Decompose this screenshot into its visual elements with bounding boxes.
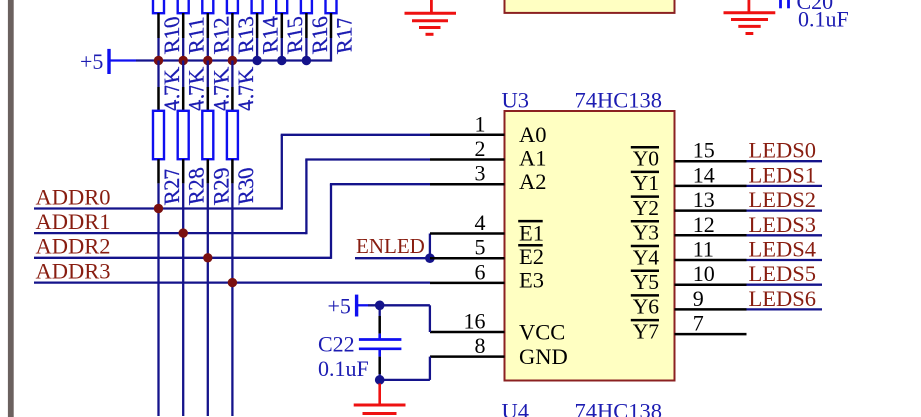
svg-text:10: 10 bbox=[693, 261, 715, 286]
svg-text:Y6: Y6 bbox=[633, 295, 660, 319]
svg-text:R10: R10 bbox=[159, 14, 184, 55]
svg-text:R30: R30 bbox=[233, 165, 258, 206]
pin 15 (Y0) bbox=[631, 138, 747, 171]
svg-text:Y7: Y7 bbox=[633, 319, 660, 343]
wire lead drop R16 bbox=[305, 38, 307, 61]
wire ADDR0 horizontal bbox=[34, 135, 430, 210]
resistor R28 4.7K bbox=[178, 61, 209, 207]
svg-text:LEDS3: LEDS3 bbox=[749, 212, 817, 237]
svg-text:ADDR2: ADDR2 bbox=[36, 234, 111, 259]
svg-text:Y5: Y5 bbox=[633, 270, 659, 294]
wire LEDS6 bbox=[747, 308, 823, 310]
svg-text:16: 16 bbox=[464, 309, 486, 334]
svg-text:R13: R13 bbox=[233, 14, 258, 55]
resistor R10 bbox=[153, 0, 184, 56]
svg-text:ADDR0: ADDR0 bbox=[36, 184, 111, 209]
power +5 (VCC) bbox=[328, 294, 369, 319]
svg-text:R15: R15 bbox=[282, 14, 307, 55]
svg-text:R12: R12 bbox=[208, 14, 233, 55]
wire LEDS4 bbox=[747, 259, 823, 261]
svg-text:A2: A2 bbox=[519, 169, 547, 194]
svg-text:A0: A0 bbox=[519, 122, 547, 147]
pin 3 (A2) bbox=[430, 161, 547, 194]
junction ADDR1/R28 bbox=[179, 228, 188, 237]
svg-text:R27: R27 bbox=[159, 165, 184, 206]
junction C22/GND bbox=[375, 375, 385, 385]
svg-text:74HC138: 74HC138 bbox=[575, 88, 663, 113]
wire lead drop R10 bbox=[157, 38, 159, 61]
resistor R12 bbox=[202, 0, 233, 56]
wire ENLED bbox=[355, 234, 430, 259]
resistor R11 bbox=[178, 0, 209, 56]
wire lead drop R11 bbox=[182, 38, 184, 61]
svg-text:Y4: Y4 bbox=[633, 245, 660, 269]
svg-text:2: 2 bbox=[475, 136, 486, 161]
wire R17 drop to rail bbox=[330, 38, 332, 62]
svg-text:A1: A1 bbox=[519, 146, 547, 171]
wire +5 rail bbox=[136, 59, 331, 61]
wire LEDS5 bbox=[747, 284, 823, 286]
wire lead drop R13 bbox=[231, 38, 233, 61]
pin 6 (E3) bbox=[430, 259, 544, 292]
svg-text:E2: E2 bbox=[519, 244, 544, 269]
svg-text:R29: R29 bbox=[208, 165, 233, 206]
pin 11 (Y4) bbox=[631, 237, 747, 270]
junction +5/R16 bbox=[302, 56, 311, 65]
junction +5/R13 bbox=[228, 56, 237, 65]
wire LEDS2 bbox=[747, 209, 823, 211]
wire ADDR2 vertical column bbox=[207, 183, 209, 416]
wire lead drop R15 bbox=[281, 38, 283, 61]
svg-text:LEDS5: LEDS5 bbox=[749, 261, 817, 286]
svg-text:13: 13 bbox=[693, 187, 715, 212]
pin 14 (Y1) bbox=[631, 162, 747, 195]
pin 10 (Y5) bbox=[631, 261, 747, 294]
wire GND net bbox=[380, 357, 430, 380]
svg-text:R17: R17 bbox=[332, 14, 357, 55]
svg-text:Y2: Y2 bbox=[633, 196, 659, 220]
junction +5/R10 bbox=[154, 56, 163, 65]
svg-text:0.1uF: 0.1uF bbox=[318, 356, 369, 381]
svg-text:Y3: Y3 bbox=[633, 221, 659, 245]
pin 5 (E2) bbox=[430, 235, 544, 269]
wire ADDR3 vertical column bbox=[231, 183, 233, 416]
power +5 (top rail) bbox=[80, 49, 136, 74]
wire lead drop R14 bbox=[256, 38, 258, 61]
resistor R14 bbox=[252, 0, 283, 56]
resistor R15 bbox=[276, 0, 307, 56]
svg-text:3: 3 bbox=[475, 161, 486, 186]
svg-text:6: 6 bbox=[475, 259, 486, 284]
wire ADDR1 vertical column bbox=[182, 183, 184, 416]
svg-text:5: 5 bbox=[475, 235, 486, 260]
svg-text:R28: R28 bbox=[184, 165, 209, 206]
svg-text:4.7K: 4.7K bbox=[184, 66, 209, 114]
ground (below C22) bbox=[354, 384, 406, 414]
svg-text:E1: E1 bbox=[519, 221, 544, 246]
resistor R30 4.7K bbox=[227, 61, 258, 207]
junction ENLED/E2 bbox=[425, 253, 435, 263]
junction ADDR3/R30 bbox=[228, 278, 237, 287]
wire lead drop R12 bbox=[207, 38, 209, 61]
capacitor C22 0.1uF bbox=[318, 305, 401, 381]
wire LEDS3 bbox=[747, 234, 823, 236]
svg-text:4.7K: 4.7K bbox=[159, 66, 184, 114]
ground (top right) bbox=[724, 0, 776, 34]
svg-text:4: 4 bbox=[475, 210, 486, 235]
svg-text:LEDS4: LEDS4 bbox=[749, 237, 817, 262]
wire ADDR2 horizontal bbox=[34, 184, 430, 259]
svg-text:14: 14 bbox=[693, 162, 715, 187]
junction +5/R15 bbox=[277, 56, 286, 65]
capacitor C20 0.1uF (partial) bbox=[781, 0, 849, 32]
svg-text:0.1uF: 0.1uF bbox=[798, 7, 849, 32]
svg-text:+5: +5 bbox=[80, 49, 103, 74]
svg-text:C22: C22 bbox=[318, 331, 355, 356]
resistor R16 bbox=[301, 0, 332, 56]
svg-text:E3: E3 bbox=[519, 267, 544, 292]
svg-text:R14: R14 bbox=[258, 14, 283, 55]
svg-text:LEDS1: LEDS1 bbox=[749, 162, 817, 187]
pin 1 (A0) bbox=[430, 111, 547, 147]
junction +5/R14 bbox=[252, 56, 261, 65]
svg-text:LEDS0: LEDS0 bbox=[749, 138, 817, 163]
svg-text:VCC: VCC bbox=[519, 319, 565, 344]
resistor R27 4.7K bbox=[153, 61, 184, 207]
svg-text:U3: U3 bbox=[502, 88, 530, 113]
pin 4 (E1) bbox=[430, 210, 544, 246]
svg-text:ENLED: ENLED bbox=[356, 234, 425, 258]
svg-text:4.7K: 4.7K bbox=[233, 66, 258, 114]
svg-text:1: 1 bbox=[475, 111, 486, 136]
svg-text:15: 15 bbox=[693, 138, 715, 163]
svg-text:Y1: Y1 bbox=[633, 171, 659, 195]
svg-text:8: 8 bbox=[475, 333, 486, 358]
svg-text:ADDR1: ADDR1 bbox=[36, 209, 111, 234]
wire LEDS0 bbox=[747, 160, 823, 162]
junction +5/C22 bbox=[375, 301, 385, 311]
junction +5/R11 bbox=[179, 56, 188, 65]
svg-text:R16: R16 bbox=[307, 14, 332, 55]
wire ADDR1 horizontal bbox=[34, 160, 430, 235]
resistor R13 bbox=[227, 0, 258, 56]
resistor R29 4.7K bbox=[202, 61, 233, 207]
svg-text:4.7K: 4.7K bbox=[208, 66, 233, 114]
wire LEDS1 bbox=[747, 185, 823, 187]
svg-text:LEDS2: LEDS2 bbox=[749, 187, 817, 212]
pin 9 (Y6) bbox=[631, 286, 747, 319]
svg-text:GND: GND bbox=[519, 344, 568, 369]
ground (top left) bbox=[405, 0, 457, 34]
pin 2 (A1) bbox=[430, 136, 547, 171]
junction ADDR2/R29 bbox=[203, 253, 212, 262]
pin 13 (Y2) bbox=[631, 187, 747, 220]
svg-text:Y0: Y0 bbox=[633, 147, 659, 171]
svg-text:R11: R11 bbox=[184, 15, 209, 56]
pin 8 (GND) bbox=[430, 333, 568, 369]
op IC U3 74HC138 body bbox=[505, 111, 675, 381]
svg-text:U4: U4 bbox=[502, 399, 530, 417]
svg-text:7: 7 bbox=[693, 311, 704, 336]
svg-text:+5: +5 bbox=[328, 294, 351, 319]
junction +5/R12 bbox=[203, 56, 212, 65]
wire ADDR3 horizontal bbox=[34, 281, 430, 283]
pin 7 (Y7) bbox=[631, 311, 747, 344]
IC U2 body (partial, top) bbox=[505, 0, 675, 13]
svg-text:74HC138: 74HC138 bbox=[575, 399, 663, 417]
pin 12 (Y3) bbox=[631, 212, 747, 245]
wire VCC net bbox=[368, 305, 430, 332]
wire ADDR0 vertical column bbox=[157, 183, 159, 416]
svg-text:ADDR3: ADDR3 bbox=[36, 258, 111, 283]
svg-text:12: 12 bbox=[693, 212, 715, 237]
svg-text:9: 9 bbox=[693, 286, 704, 311]
svg-text:11: 11 bbox=[693, 237, 714, 262]
resistor R17 bbox=[326, 0, 357, 56]
junction ADDR0/R27 bbox=[154, 204, 163, 213]
pin 16 (VCC) bbox=[430, 309, 565, 345]
svg-text:LEDS6: LEDS6 bbox=[749, 286, 817, 311]
